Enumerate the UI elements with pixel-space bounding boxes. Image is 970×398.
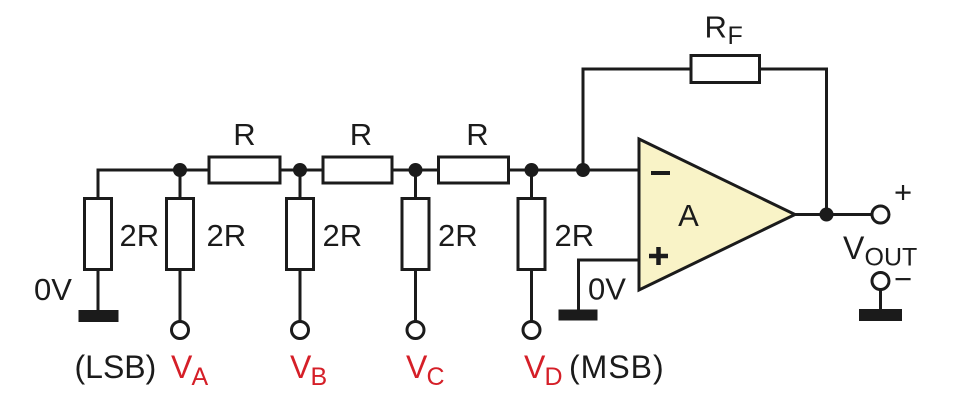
svg-text:2R: 2R [438, 218, 478, 253]
terminal VA [172, 322, 189, 339]
wire: node A to 2R [179, 170, 182, 199]
node output junction [820, 208, 834, 222]
svg-text:(MSB): (MSB) [569, 349, 665, 385]
svg-text:R: R [350, 117, 372, 152]
op-amp inverting input symbol [651, 171, 670, 175]
wire: terminator to ground [97, 268, 100, 311]
terminal VOUT minus [872, 273, 889, 290]
ground (op-amp 0V) [559, 310, 598, 321]
op-amp non-inverting input symbol [649, 247, 668, 265]
svg-text:R: R [233, 117, 255, 152]
svg-text:V: V [843, 230, 865, 266]
svg-text:−: − [894, 262, 912, 297]
wire: left corner drop to terminator resistor [97, 169, 100, 200]
op-amp A [639, 139, 795, 290]
svg-text:B: B [311, 363, 328, 391]
terminal VOUT + [872, 206, 889, 223]
resistor R2 [323, 157, 392, 183]
resistor 2R (terminator) [85, 199, 112, 270]
svg-text:A: A [678, 198, 699, 233]
svg-text:F: F [728, 22, 743, 50]
svg-text:V: V [290, 349, 312, 385]
resistor 2R (branch D) [518, 199, 545, 270]
resistor R1 [209, 157, 280, 183]
svg-text:D: D [545, 363, 563, 391]
wire: feedback top right [760, 68, 829, 71]
svg-text:(LSB): (LSB) [75, 349, 157, 385]
resistor RF [691, 56, 760, 83]
svg-text:0V: 0V [588, 272, 626, 307]
ground (output) [859, 309, 902, 321]
wire: node D to 2R [530, 170, 533, 199]
terminal VD [523, 322, 540, 339]
svg-text:R: R [705, 10, 727, 45]
wire: op-amp output [792, 213, 872, 216]
svg-text:R: R [466, 117, 488, 152]
svg-text:0V: 0V [34, 272, 72, 307]
node D junction [525, 163, 539, 177]
wire: node C to 2R [414, 170, 417, 199]
svg-text:2R: 2R [207, 218, 247, 253]
svg-text:2R: 2R [323, 218, 363, 253]
wire: node B to 2R [299, 170, 302, 199]
svg-text:C: C [427, 363, 445, 391]
node A junction [173, 163, 187, 177]
wire: 2R D to terminal [530, 268, 533, 323]
terminal VB [292, 322, 309, 339]
wire: 2R A to terminal [179, 268, 182, 323]
resistor R3 [439, 157, 509, 183]
wire: feedback drop to output [825, 69, 828, 215]
wire: minus terminal to ground [879, 289, 882, 311]
resistor 2R (branch B) [287, 199, 314, 270]
svg-text:2R: 2R [120, 218, 160, 253]
node B junction [293, 163, 307, 177]
resistor 2R (branch A) [167, 199, 194, 270]
wire: summing bus [98, 169, 640, 172]
wire: 2R B to terminal [299, 268, 302, 323]
wire: non-inverting input to ground [579, 260, 641, 310]
wire: feedback riser [582, 69, 585, 170]
svg-text:V: V [171, 349, 193, 385]
svg-text:A: A [192, 363, 209, 391]
svg-text:V: V [524, 349, 546, 385]
svg-text:2R: 2R [555, 218, 595, 253]
ground (left 0V) [79, 310, 119, 322]
terminal VC [407, 322, 424, 339]
node C junction [409, 163, 423, 177]
wire: 2R C to terminal [414, 268, 417, 323]
svg-text:V: V [406, 349, 428, 385]
node feedback tap junction [576, 163, 590, 177]
svg-text:+: + [894, 175, 912, 210]
resistor 2R (branch C) [402, 199, 429, 270]
wire: feedback top left [582, 68, 692, 71]
